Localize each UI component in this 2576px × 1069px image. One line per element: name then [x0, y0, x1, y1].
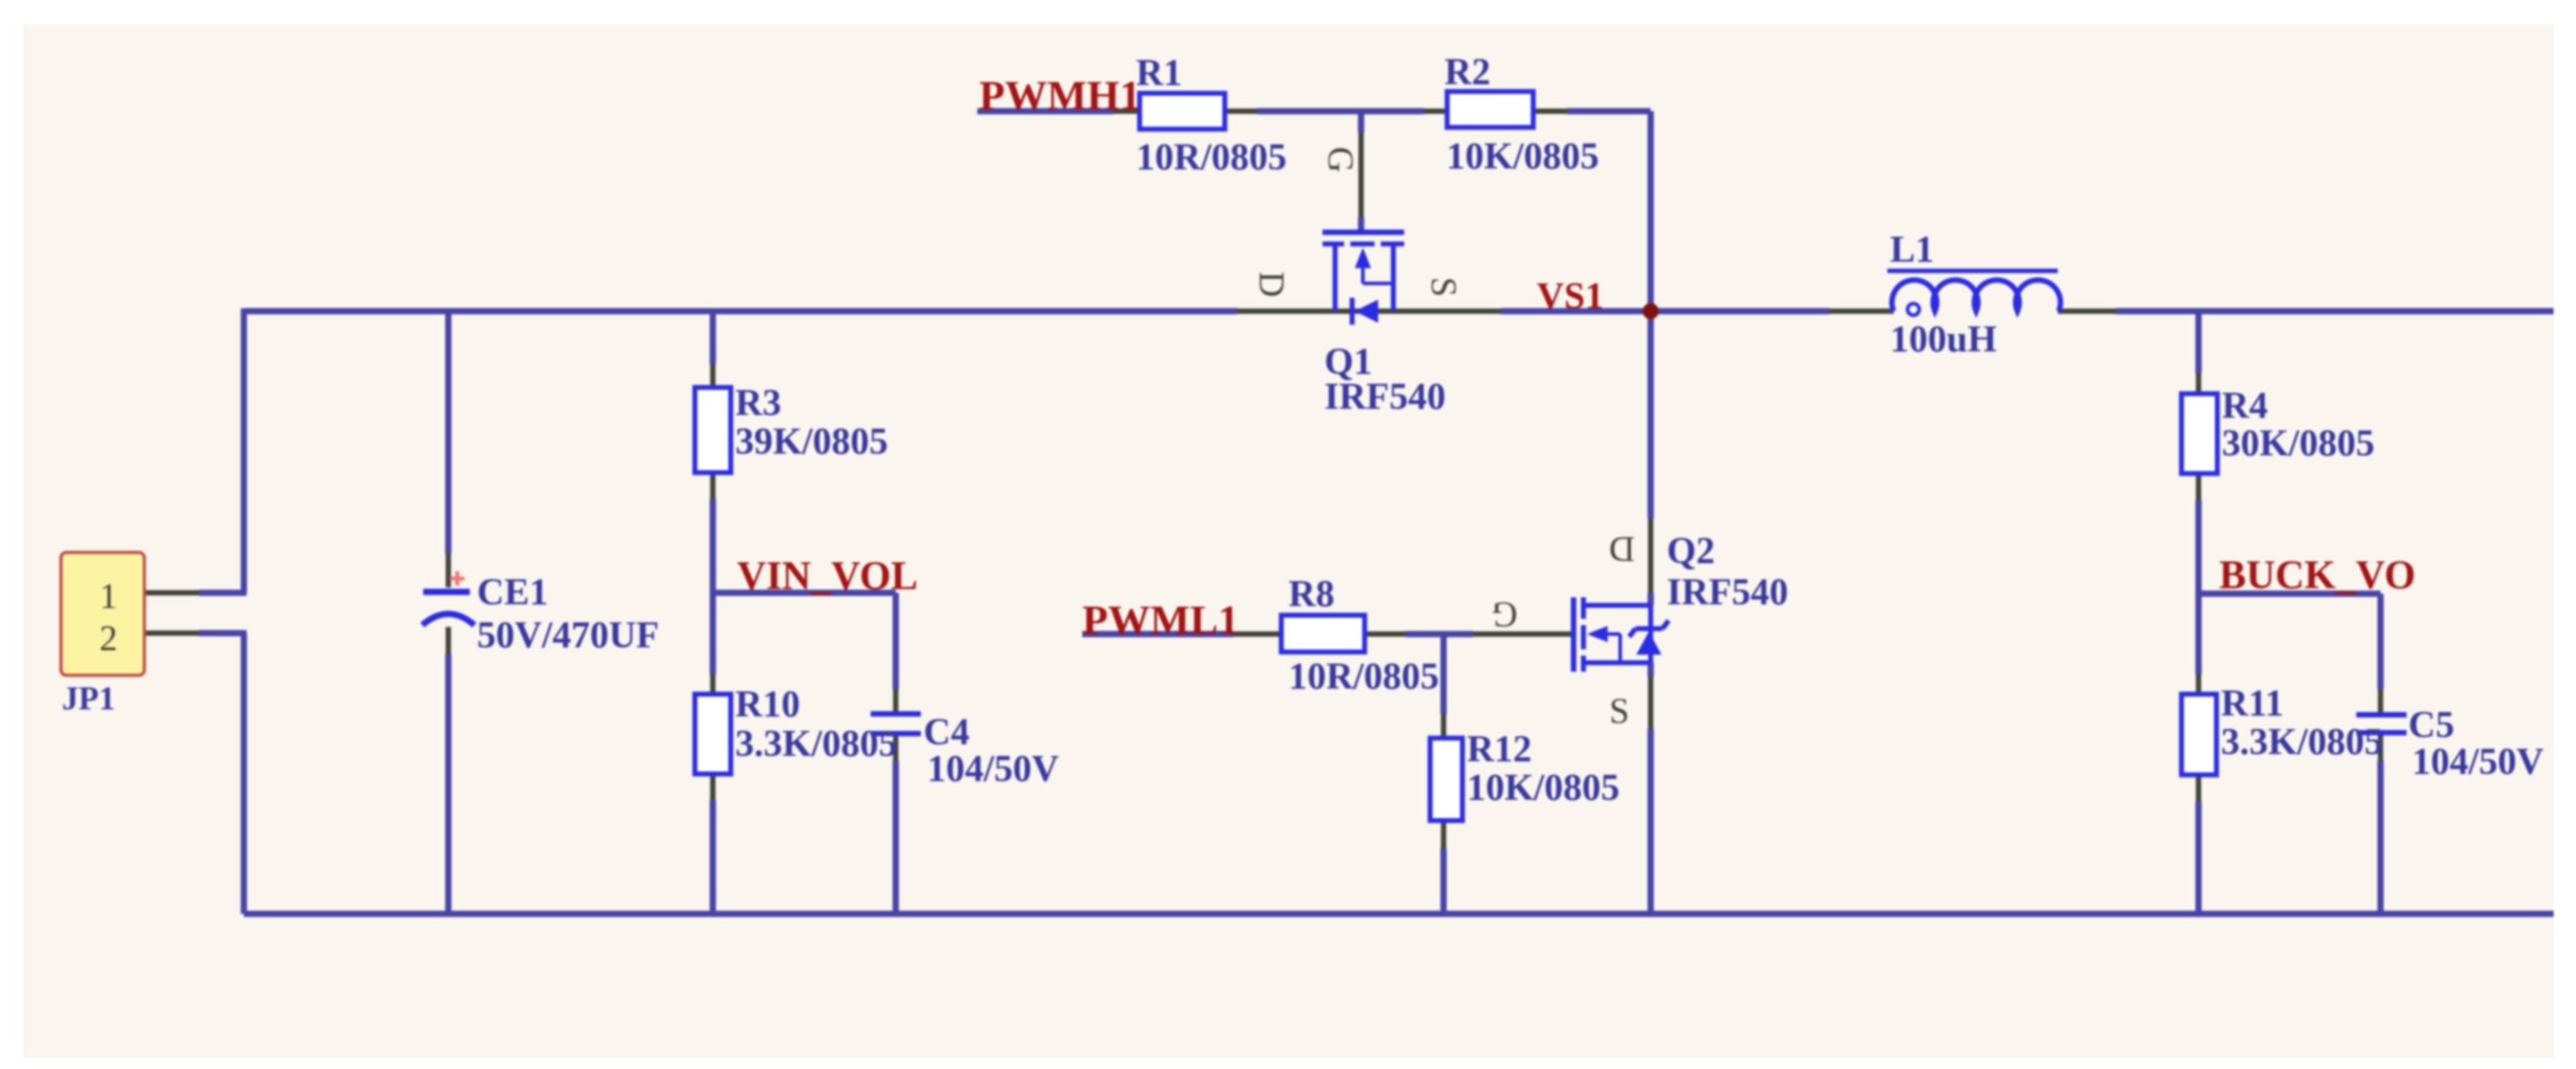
- svg-text:C4: C4: [924, 712, 969, 753]
- svg-text:R8: R8: [1288, 574, 1334, 615]
- svg-text:1: 1: [100, 576, 117, 616]
- svg-text:IRF540: IRF540: [1324, 377, 1445, 418]
- svg-text:D: D: [1609, 529, 1635, 569]
- svg-text:3.3K/0805: 3.3K/0805: [2221, 722, 2383, 763]
- svg-text:104/50V: 104/50V: [927, 749, 1059, 790]
- svg-text:10K/0805: 10K/0805: [1467, 768, 1619, 809]
- svg-text:PWML1: PWML1: [1082, 597, 1239, 644]
- svg-text:39K/0805: 39K/0805: [735, 422, 888, 463]
- svg-text:R12: R12: [1467, 729, 1531, 770]
- svg-text:CE1: CE1: [477, 572, 548, 613]
- svg-text:VS1: VS1: [1537, 276, 1604, 317]
- svg-text:BUCK_VO: BUCK_VO: [2219, 552, 2416, 597]
- svg-text:R11: R11: [2221, 683, 2284, 725]
- svg-text:104/50V: 104/50V: [2412, 742, 2544, 783]
- svg-text:2: 2: [100, 618, 117, 658]
- svg-text:IRF540: IRF540: [1667, 572, 1788, 613]
- svg-text:D: D: [1252, 272, 1292, 298]
- svg-text:G: G: [1492, 595, 1518, 635]
- svg-text:10R/0805: 10R/0805: [1136, 137, 1287, 178]
- svg-text:S: S: [1609, 691, 1629, 731]
- svg-text:30K/0805: 30K/0805: [2222, 423, 2374, 465]
- svg-text:JP1: JP1: [62, 681, 116, 717]
- svg-text:100uH: 100uH: [1890, 319, 1997, 361]
- svg-text:R10: R10: [735, 684, 800, 726]
- svg-text:VIN_VOL: VIN_VOL: [737, 553, 918, 598]
- svg-text:R3: R3: [735, 383, 781, 424]
- svg-text:C5: C5: [2408, 705, 2454, 746]
- svg-text:3.3K/0805: 3.3K/0805: [735, 724, 898, 765]
- svg-text:S: S: [1424, 277, 1464, 297]
- svg-text:50V/470UF: 50V/470UF: [477, 615, 659, 656]
- svg-text:R2: R2: [1444, 52, 1490, 93]
- svg-text:10R/0805: 10R/0805: [1288, 656, 1439, 698]
- svg-text:L1: L1: [1890, 230, 1934, 271]
- svg-text:10K/0805: 10K/0805: [1446, 136, 1599, 178]
- svg-text:R4: R4: [2222, 386, 2268, 427]
- svg-text:R1: R1: [1136, 53, 1182, 94]
- svg-text:PWMH1: PWMH1: [979, 73, 1141, 119]
- svg-text:Q2: Q2: [1667, 531, 1715, 572]
- svg-text:G: G: [1321, 147, 1361, 173]
